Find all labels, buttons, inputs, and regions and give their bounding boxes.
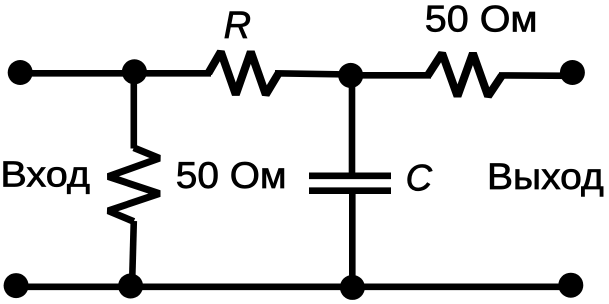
node: bottom junction of shunt resistor (118, 274, 143, 299)
wire: top-left rail from input terminal to resistor R (16, 70, 211, 77)
svg-text:Выход: Выход (487, 156, 604, 197)
node: input top terminal (8, 60, 33, 85)
node A: top junction of shunt resistor (122, 59, 147, 84)
wire: capacitor bottom stub to bottom rail (349, 194, 356, 287)
wire: bottom rail (14, 283, 571, 290)
wire: left shunt branch lower stub (132, 221, 134, 287)
svg-text:50 Ом: 50 Ом (425, 0, 538, 40)
svg-text:50 Ом: 50 Ом (176, 154, 287, 196)
resistor 50 Om (shunt, left branch) (108, 148, 159, 222)
wire: left shunt branch upper stub (131, 72, 138, 149)
resistor 50 Om (series, output) (428, 53, 502, 96)
node: output top terminal (560, 60, 585, 85)
svg-text:C: C (406, 157, 433, 198)
node: input bottom terminal (4, 273, 29, 298)
svg-text:Вход: Вход (0, 153, 90, 194)
capacitor C bottom plate (309, 187, 391, 194)
capacitor C top plate (309, 173, 391, 180)
wire: from resistor R to node B (275, 73, 351, 74)
wire: node B to 50 Ohm output resistor (351, 72, 431, 79)
svg-text:R: R (224, 5, 251, 47)
node B: top junction of capacitor (338, 63, 363, 88)
wire: from output resistor to output terminal (499, 72, 572, 79)
node: output bottom terminal (558, 273, 583, 298)
wire: capacitor top stub from node B (349, 75, 356, 172)
resistor R (series, top rail) (208, 52, 278, 95)
node: bottom junction of capacitor (340, 275, 365, 300)
